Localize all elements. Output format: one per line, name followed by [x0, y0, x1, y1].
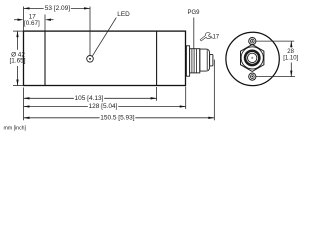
svg-text:LED: LED	[117, 11, 130, 18]
svg-text:128 [5.04]: 128 [5.04]	[89, 103, 118, 110]
svg-text:[0.67]: [0.67]	[24, 20, 40, 27]
svg-text:mm [inch]: mm [inch]	[4, 126, 27, 132]
svg-text:[1.65]: [1.65]	[10, 58, 26, 65]
svg-text:28: 28	[287, 49, 294, 55]
svg-text:150.5 [5.93]: 150.5 [5.93]	[100, 114, 135, 121]
svg-text:17: 17	[212, 35, 219, 41]
svg-text:53 [2.09]: 53 [2.09]	[45, 5, 70, 12]
svg-text:105 [4.13]: 105 [4.13]	[75, 95, 104, 102]
svg-text:[1.10]: [1.10]	[283, 55, 298, 61]
svg-text:PG9: PG9	[187, 10, 200, 16]
